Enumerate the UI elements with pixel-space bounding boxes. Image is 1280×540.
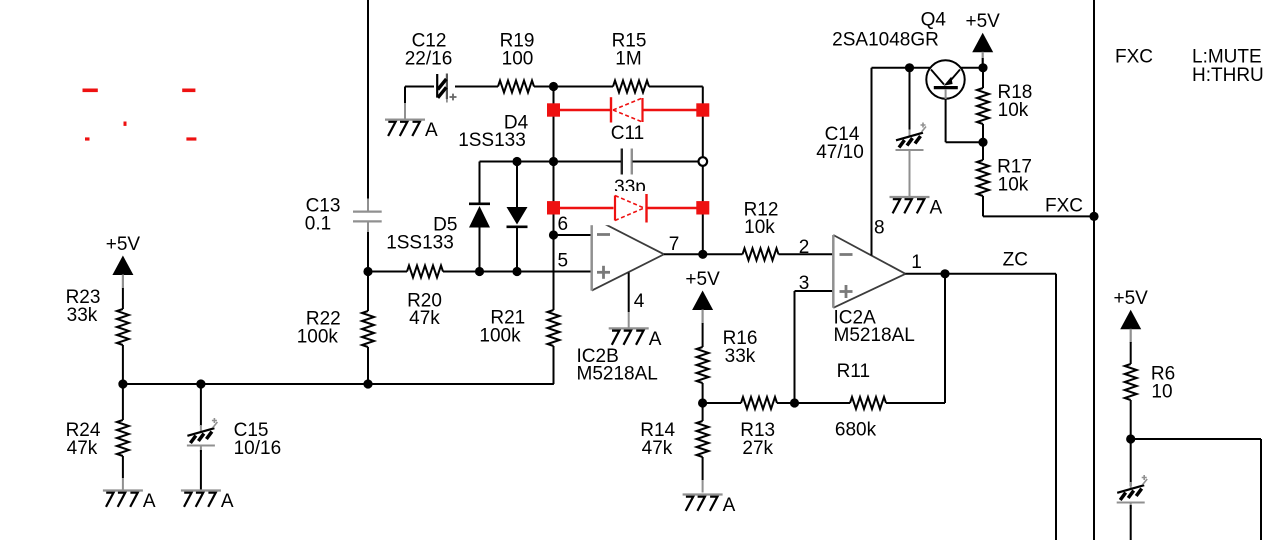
- wire C11 left: [554, 161, 622, 163]
- svg-text:10: 10: [1151, 381, 1172, 402]
- resistor R16: [697, 347, 709, 383]
- label pin 1: [911, 252, 922, 273]
- resistor R22: [362, 272, 374, 385]
- junction R22/rail: [363, 379, 372, 388]
- wire feedback left vertical (node 6): [553, 87, 555, 311]
- diode D5: [469, 162, 490, 272]
- label pin 3: [799, 273, 810, 294]
- label R22 100k: [297, 309, 341, 348]
- resistor R13: [741, 397, 777, 409]
- resistor R18: [977, 68, 989, 142]
- svg-text:0.1: 0.1: [305, 213, 331, 234]
- wire node to R11: [795, 402, 851, 404]
- label C14 47/10: [816, 124, 864, 163]
- resistor R19: [498, 81, 534, 93]
- label H:THRU: [1192, 65, 1264, 86]
- junction D4 bottom: [512, 267, 521, 276]
- svg-text:8: 8: [874, 218, 885, 239]
- junction pin6 branch: [549, 230, 558, 239]
- svg-text:M5218AL: M5218AL: [577, 364, 658, 385]
- label pin 7: [669, 234, 680, 255]
- svg-text:10k: 10k: [744, 217, 775, 238]
- svg-text:+5V: +5V: [106, 234, 141, 255]
- label D4 1SS133: [458, 112, 528, 151]
- label R23 33k: [66, 287, 101, 326]
- label R20 47k: [407, 290, 442, 329]
- svg-text:7: 7: [669, 234, 680, 255]
- resistor R11: [850, 397, 886, 409]
- junction C13/R20/R22: [363, 267, 372, 276]
- svg-text:Q4: Q4: [921, 10, 947, 31]
- wire pin8 top corner: [872, 67, 910, 69]
- capacitor C16: [1117, 475, 1148, 509]
- svg-text:FXC: FXC: [1115, 47, 1153, 68]
- wire R19 to node: [534, 86, 554, 88]
- svg-text:1M: 1M: [615, 48, 641, 69]
- label R18 10k: [997, 82, 1032, 121]
- op-amp IC2B: [592, 217, 664, 290]
- power +5V (R6 branch): [1114, 288, 1149, 343]
- wire C16 down: [1130, 505, 1132, 540]
- wire pin5 rail left: [368, 271, 407, 273]
- label C12 22/16: [405, 31, 453, 70]
- junction C14/Q4 collector: [905, 63, 914, 72]
- ground A (below R14): [683, 495, 736, 517]
- overlay mask upper: [572, 95, 692, 124]
- svg-text:A: A: [143, 491, 156, 512]
- svg-text:1: 1: [911, 252, 922, 273]
- wire rail to C15: [200, 384, 202, 426]
- junction R16/R14/R13: [698, 398, 707, 407]
- junction C11 left: [549, 157, 558, 166]
- junction pin3/R13/R11: [790, 398, 799, 407]
- wire R6 to node: [1130, 400, 1132, 439]
- bias rail wire: [123, 383, 554, 385]
- wire C14 to ground: [909, 154, 911, 196]
- label C11: [611, 123, 644, 144]
- label C15 10/16: [234, 420, 282, 459]
- svg-text:+5V: +5V: [966, 11, 1001, 32]
- wire pin3 vertical: [794, 291, 796, 403]
- svg-text:FXC: FXC: [1045, 196, 1083, 217]
- resistor R12: [743, 248, 779, 260]
- svg-text:47k: 47k: [642, 438, 673, 459]
- transistor Q4: [926, 60, 964, 99]
- svg-text:2: 2: [799, 237, 810, 258]
- terminal circle C11 right: [699, 157, 708, 166]
- resistor R23: [117, 309, 129, 345]
- wire +5V to R6: [1130, 342, 1132, 364]
- capacitor C11: [622, 149, 632, 175]
- junction C15/rail: [196, 379, 205, 388]
- junction pin7/feedback: [698, 250, 707, 259]
- svg-text:100k: 100k: [297, 326, 339, 347]
- wire node to R15: [554, 86, 614, 88]
- resistor R14: [697, 403, 709, 493]
- wire IC2A output: [906, 273, 1057, 275]
- wire R12 to IC2A: [779, 253, 834, 255]
- wire +5V to R16: [702, 323, 704, 347]
- wire C12 left lead: [405, 87, 434, 120]
- svg-text:47k: 47k: [409, 308, 440, 329]
- svg-text:H:THRU: H:THRU: [1192, 65, 1264, 86]
- svg-text:10/16: 10/16: [234, 438, 282, 459]
- svg-text:C11: C11: [611, 123, 644, 144]
- wire pin7 output: [664, 253, 743, 255]
- svg-text:100k: 100k: [479, 325, 521, 346]
- wire pin5 rail right: [443, 271, 592, 273]
- label 2SA1048GR: [832, 29, 939, 50]
- svg-text:R11: R11: [837, 361, 870, 382]
- label R17 10k: [997, 157, 1032, 196]
- svg-text:1SS133: 1SS133: [386, 233, 454, 254]
- svg-text:47/10: 47/10: [816, 142, 864, 163]
- label FXC (node): [1045, 196, 1083, 217]
- wire R11 to output: [886, 274, 945, 403]
- wire pin6 stub: [554, 234, 592, 236]
- svg-text:680k: 680k: [835, 420, 877, 441]
- svg-text:2SA1048GR: 2SA1048GR: [832, 29, 939, 50]
- stray red mark 2: [182, 89, 195, 93]
- svg-text:M5218AL: M5218AL: [834, 325, 915, 346]
- wire right bus vertical: [1093, 0, 1095, 540]
- svg-text:22/16: 22/16: [405, 48, 453, 69]
- junction FXC/vertical: [1089, 212, 1098, 221]
- wire R15 to right corner: [649, 86, 703, 88]
- wire FXC: [983, 215, 1094, 217]
- capacitor C12: [437, 74, 456, 103]
- label R21 100k: [479, 308, 525, 347]
- svg-text:A: A: [221, 491, 234, 512]
- label pin 6: [558, 214, 569, 235]
- power +5V (R16 branch): [685, 269, 720, 324]
- svg-text:100: 100: [502, 48, 534, 69]
- red overlay square lower-left: [547, 201, 560, 214]
- svg-text:ZC: ZC: [1003, 250, 1028, 271]
- ground A (IC2B pin4): [609, 328, 662, 350]
- wire C12 to R19: [455, 86, 498, 88]
- label R16 33k: [723, 328, 758, 367]
- junction R23/R24/rail: [118, 379, 127, 388]
- label pin 4: [634, 291, 645, 312]
- wire feedback right vertical: [702, 87, 704, 255]
- wire input vertical: [367, 0, 369, 211]
- svg-text:1SS133: 1SS133: [458, 130, 526, 151]
- wire diode top rail: [480, 161, 622, 163]
- label R14 47k: [640, 420, 675, 459]
- label R12 10k: [744, 199, 779, 238]
- svg-text:47k: 47k: [67, 438, 98, 459]
- svg-text:A: A: [425, 120, 438, 141]
- capacitor C15: [187, 418, 218, 452]
- wire pin3 stub: [795, 290, 834, 292]
- resistor R24: [117, 384, 129, 456]
- wire IC2B pin4: [628, 273, 630, 329]
- power +5V (Q4): [966, 11, 1001, 66]
- red overlay wire lower: [554, 207, 703, 210]
- red overlay diode upper: [611, 97, 643, 122]
- label R6 10: [1151, 364, 1175, 403]
- label D5 1SS133: [386, 214, 457, 253]
- svg-text:4: 4: [634, 291, 645, 312]
- resistor R15: [613, 81, 649, 93]
- red overlay diode lower: [615, 194, 647, 223]
- label IC2B M5218AL: [577, 346, 658, 385]
- junction Q4 emitter/+5V/R18: [978, 63, 987, 72]
- red overlay square upper-right: [696, 103, 709, 116]
- ground A (C12): [385, 120, 438, 142]
- label Q4: [921, 10, 947, 31]
- wire C11 right: [633, 161, 703, 163]
- wire R16 to node: [702, 383, 704, 403]
- svg-text:33k: 33k: [67, 305, 98, 326]
- label L:MUTE: [1192, 47, 1262, 68]
- stray red mark 4: [85, 137, 90, 140]
- diode D4: [507, 162, 528, 272]
- label R15 1M: [612, 31, 647, 70]
- ground A (below C15): [181, 491, 234, 513]
- label 680k: [835, 420, 877, 441]
- svg-text:5: 5: [558, 251, 569, 272]
- svg-text:A: A: [649, 329, 662, 350]
- red overlay wire upper: [554, 109, 703, 112]
- label pin 2: [799, 237, 810, 258]
- wire node to C16: [1130, 439, 1132, 486]
- op-amp IC2A: [833, 235, 905, 308]
- svg-text:A: A: [723, 495, 736, 516]
- wire Q4 emitter: [961, 67, 983, 69]
- wire Q4 base: [946, 99, 983, 142]
- stray red mark 3: [124, 122, 127, 126]
- wire +5V to R23: [122, 288, 124, 309]
- label R13 27k: [740, 420, 775, 459]
- svg-text:10k: 10k: [998, 100, 1029, 121]
- label pin 8: [874, 218, 885, 239]
- junction D5 bottom: [475, 267, 484, 276]
- wire R24 to ground: [122, 456, 124, 490]
- junction diode top right: [512, 157, 521, 166]
- svg-text:6: 6: [558, 214, 569, 235]
- label 33p: [614, 177, 646, 198]
- junction output/R11: [940, 269, 949, 278]
- red overlay square upper-left: [547, 103, 560, 116]
- wire R13 to pin3 node: [777, 402, 795, 404]
- resistor R6: [1125, 364, 1137, 400]
- label C13 0.1: [305, 196, 341, 235]
- label R11: [837, 361, 870, 382]
- wire +5V to node: [982, 58, 984, 68]
- svg-text:A: A: [930, 198, 943, 219]
- wire R23 to node: [122, 345, 124, 384]
- svg-text:+5V: +5V: [685, 269, 720, 290]
- label ZC: [1003, 250, 1028, 271]
- junction R6 node: [1126, 434, 1135, 443]
- ground A (below R24): [103, 491, 156, 513]
- label pin 5: [558, 251, 569, 272]
- resistor R21: [548, 310, 560, 384]
- resistor R17: [977, 142, 989, 216]
- overlay mask lower: [572, 191, 692, 225]
- wire ZC down: [1055, 274, 1057, 540]
- wire C13 to pin5 rail: [367, 232, 369, 272]
- label IC2A M5218AL: [834, 308, 915, 347]
- capacitor C14: [896, 123, 927, 157]
- svg-text:33k: 33k: [725, 346, 756, 367]
- ground A (C14): [890, 197, 943, 219]
- svg-text:27k: 27k: [742, 438, 773, 459]
- label R19 100: [500, 31, 535, 70]
- wire to Q4: [910, 67, 931, 69]
- stray red mark 5: [186, 137, 196, 140]
- stray red mark 1: [83, 89, 98, 93]
- resistor R20: [407, 266, 443, 278]
- svg-text:+5V: +5V: [1114, 288, 1149, 309]
- wire IC2A pin8: [871, 68, 873, 256]
- capacitor C13: [353, 212, 382, 234]
- wire node right branch: [1131, 439, 1261, 540]
- label R24 47k: [66, 420, 101, 459]
- svg-text:10k: 10k: [998, 174, 1029, 195]
- power +5V (R23 branch): [106, 234, 141, 289]
- label FXC (legend): [1115, 47, 1153, 68]
- wire C15 to ground: [200, 450, 202, 490]
- red overlay square lower-right: [696, 201, 709, 214]
- wire C14 top: [909, 68, 911, 130]
- svg-text:3: 3: [799, 273, 810, 294]
- wire node to R13: [703, 402, 741, 404]
- junction R19/R15/feedback node: [549, 82, 558, 91]
- junction R18/R17/Q4 base: [978, 138, 987, 147]
